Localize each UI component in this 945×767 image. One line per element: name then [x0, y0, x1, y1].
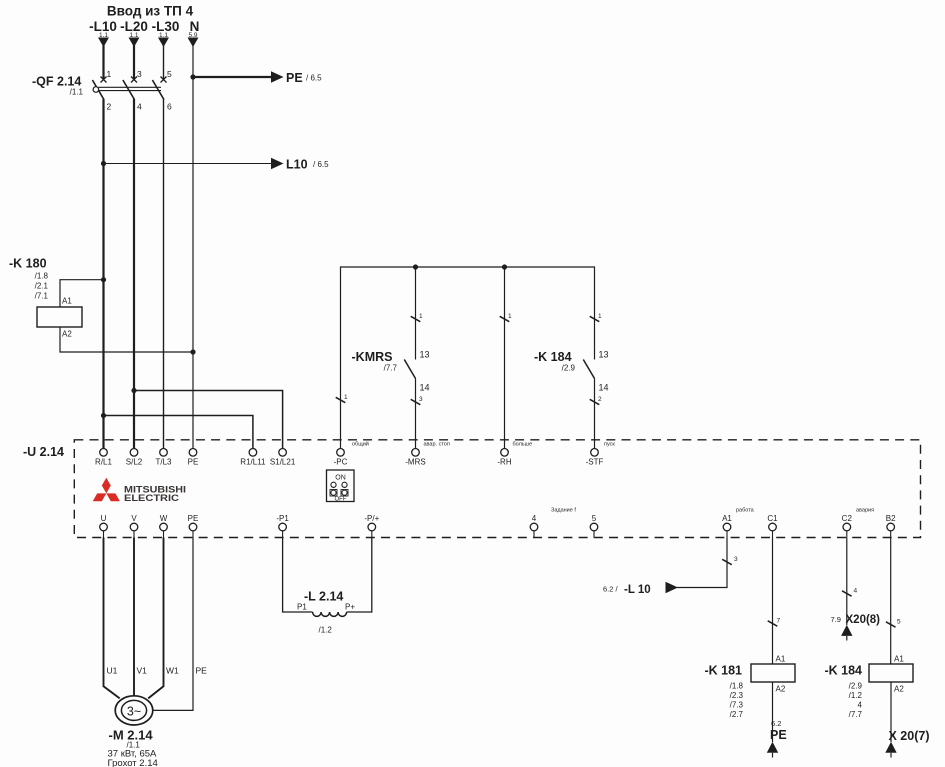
- svg-text:R/L1: R/L1: [95, 458, 112, 467]
- svg-text:3: 3: [419, 396, 423, 403]
- svg-text:работа: работа: [736, 508, 755, 514]
- svg-text:13: 13: [420, 350, 430, 360]
- wire MRS column upper: [415, 267, 417, 360]
- wire V to motor: [133, 538, 135, 697]
- svg-text:общий: общий: [352, 441, 369, 448]
- terminal mark 5 on B2 wire: [886, 622, 896, 627]
- terminal mark 1 on MRS wire: [411, 316, 421, 321]
- logo Mitsubishi lower-left diamond: [93, 493, 107, 501]
- svg-text:PE: PE: [286, 71, 303, 85]
- svg-text:1: 1: [107, 69, 112, 79]
- svg-text:1: 1: [419, 313, 423, 320]
- wire W to motor: [148, 538, 163, 699]
- svg-text:X20(8): X20(8): [846, 614, 881, 626]
- svg-text:ELECTRIC: ELECTRIC: [124, 493, 179, 504]
- wire L10 branch: [104, 163, 273, 165]
- wire STF column lower: [594, 379, 596, 449]
- wire R/L1 to R1/L11: [104, 416, 253, 449]
- svg-text:/ 6.5: / 6.5: [306, 74, 322, 83]
- svg-text:7.9: 7.9: [831, 615, 841, 624]
- breaker linkage: [99, 86, 162, 88]
- feed arrow L20: [129, 38, 140, 48]
- wire C2 column: [846, 538, 848, 626]
- svg-text:X 20(7): X 20(7): [889, 729, 930, 743]
- svg-text:2: 2: [598, 396, 602, 403]
- logo Mitsubishi lower-right diamond: [106, 493, 120, 501]
- svg-text:пуск: пуск: [604, 442, 615, 448]
- wire L30 upper: [163, 45, 165, 79]
- terminal mark 3 on MRS wire: [411, 399, 421, 404]
- svg-text:C2: C2: [842, 514, 853, 523]
- svg-text:/1.8: /1.8: [730, 682, 744, 691]
- svg-text:/7.1: /7.1: [35, 292, 49, 301]
- relay coil K180: [37, 307, 82, 327]
- svg-text:A1: A1: [62, 297, 72, 306]
- svg-text:-PC: -PC: [334, 458, 348, 467]
- wire S/L2 to S1/L21: [134, 391, 283, 449]
- svg-text:PE: PE: [188, 458, 199, 467]
- wire MRS column lower: [415, 379, 417, 449]
- svg-text:/ 6.5: / 6.5: [313, 160, 329, 169]
- svg-text:3: 3: [734, 556, 738, 563]
- wire A1 column: [677, 538, 727, 588]
- terminal R1/L11: [249, 449, 257, 457]
- svg-text:B2: B2: [886, 514, 896, 523]
- svg-text:A1: A1: [722, 514, 732, 523]
- breaker pole 3 lever: [152, 80, 164, 100]
- terminal mark 1 on PC wire: [336, 397, 346, 402]
- svg-text:P1: P1: [297, 603, 307, 612]
- svg-text:A1: A1: [776, 655, 786, 664]
- feed arrow L10: [98, 38, 109, 48]
- svg-text:4: 4: [858, 701, 863, 710]
- wire RH column: [504, 267, 506, 449]
- svg-text:U1: U1: [107, 666, 118, 676]
- svg-text:/1.1: /1.1: [70, 88, 84, 97]
- svg-text:1: 1: [598, 313, 602, 320]
- svg-text:-K 184: -K 184: [534, 350, 572, 364]
- motor M2.14 inner circle: [121, 700, 146, 720]
- wire choke to -P/+: [347, 538, 372, 613]
- svg-text:T/L3: T/L3: [155, 458, 172, 467]
- breaker mechanism circle: [93, 87, 99, 93]
- svg-text:L10: L10: [286, 158, 308, 172]
- node K180-N junction: [190, 349, 195, 354]
- terminal mark 7 on C1 wire: [768, 621, 778, 626]
- svg-text:-STF: -STF: [586, 458, 604, 467]
- svg-text:U: U: [101, 514, 107, 523]
- breaker pole 2 lever: [123, 80, 134, 100]
- svg-text:5: 5: [897, 619, 901, 626]
- terminal S1/L21: [279, 449, 287, 457]
- inverter box U2.14 dashed border: [74, 440, 920, 538]
- svg-text:/2.1: /2.1: [35, 282, 49, 291]
- contact KMRS lever: [404, 360, 415, 379]
- svg-text:Задание f: Задание f: [551, 508, 576, 514]
- wire PE to motor: [153, 538, 193, 711]
- svg-text:/1.2: /1.2: [849, 691, 863, 700]
- motor M2.14 outer circle: [115, 696, 153, 725]
- breaker pole 1 lever: [92, 80, 104, 100]
- svg-text:-L 10: -L 10: [624, 584, 651, 596]
- svg-text:авария: авария: [856, 508, 874, 514]
- svg-text:6.2 /: 6.2 /: [603, 585, 619, 594]
- terminal PE top: [189, 449, 197, 457]
- wire L10 upper: [102, 45, 104, 79]
- svg-text:Ввод из ТП 4: Ввод из ТП 4: [107, 4, 194, 19]
- arrow from -L 10: [666, 582, 679, 593]
- terminal mark 2 on STF wire: [590, 399, 600, 404]
- terminal -PC: [337, 449, 345, 457]
- wire B2 column: [890, 538, 892, 665]
- wire PE branch: [193, 76, 272, 78]
- wire L20 lower: [133, 99, 135, 449]
- svg-text:C1: C1: [767, 514, 778, 523]
- svg-text:6: 6: [167, 102, 172, 112]
- svg-text:/2.9: /2.9: [562, 364, 576, 373]
- svg-text:/2.9: /2.9: [849, 682, 863, 691]
- svg-text:-KMRS: -KMRS: [352, 350, 393, 364]
- svg-text:-P1: -P1: [276, 514, 289, 523]
- wire K180 A2 to N: [60, 327, 193, 352]
- svg-text:/7.3: /7.3: [730, 701, 744, 710]
- arrow X20(8) connector: [841, 625, 852, 636]
- terminal -STF: [591, 449, 599, 457]
- terminal mark 3 on A1 wire: [722, 559, 732, 564]
- svg-text:-P/+: -P/+: [364, 514, 379, 523]
- node bus-RH junction: [502, 264, 507, 269]
- svg-text:-QF 2.14: -QF 2.14: [32, 75, 81, 89]
- terminal mark 4 on C2 wire: [842, 591, 852, 596]
- svg-text:авар. стоп: авар. стоп: [424, 442, 450, 448]
- svg-text:-K 184: -K 184: [824, 664, 862, 678]
- contact K184 lever: [583, 360, 594, 379]
- svg-text:-L 2.14: -L 2.14: [304, 590, 343, 604]
- svg-text:A1: A1: [894, 655, 904, 664]
- wire C1 column: [772, 538, 774, 665]
- svg-text:4: 4: [137, 102, 142, 112]
- svg-text:/2.7: /2.7: [730, 710, 744, 719]
- svg-text:7: 7: [777, 618, 781, 625]
- control bus wire: [341, 267, 595, 449]
- svg-text:S1/L21: S1/L21: [270, 458, 296, 467]
- wire -P1 to choke: [283, 538, 313, 613]
- svg-text:/7.7: /7.7: [384, 364, 398, 373]
- node N-PE junction: [190, 74, 195, 79]
- svg-text:14: 14: [420, 383, 430, 393]
- node L10 branch junction: [101, 161, 106, 166]
- svg-text:-K 181: -K 181: [704, 664, 742, 678]
- svg-text:/1.8: /1.8: [35, 272, 49, 281]
- svg-text:OFF: OFF: [335, 497, 347, 503]
- wire K181 A2 down: [772, 682, 774, 742]
- svg-text:Грохот 2.14: Грохот 2.14: [108, 758, 158, 767]
- svg-text:14: 14: [599, 383, 609, 393]
- feed arrow N: [188, 38, 199, 48]
- svg-text:R1/L11: R1/L11: [240, 458, 266, 467]
- svg-text:PE: PE: [196, 666, 208, 676]
- svg-text:W1: W1: [166, 666, 179, 676]
- node K180-L10 junction: [101, 277, 106, 282]
- svg-text:1: 1: [344, 394, 348, 401]
- wire K184 A2 down: [890, 682, 892, 742]
- breaker pole 1 contact mark: [101, 77, 107, 83]
- svg-text:PE: PE: [188, 514, 199, 523]
- arrow X20(7) down connector: [885, 742, 896, 753]
- terminal S/L2: [130, 449, 138, 457]
- terminal -MRS: [412, 449, 420, 457]
- dip switch ON/OFF: [327, 470, 355, 502]
- wire L10 lower: [102, 99, 104, 449]
- svg-text:S/L2: S/L2: [126, 458, 143, 467]
- arrow PE down connector: [767, 742, 778, 753]
- svg-text:PE: PE: [770, 728, 787, 742]
- arrow PE off-page: [271, 71, 284, 82]
- svg-text:/1.2: /1.2: [319, 626, 333, 635]
- svg-text:6.2: 6.2: [771, 719, 781, 728]
- terminal R/L1: [100, 449, 108, 457]
- node R/L1 branch junction: [101, 413, 106, 418]
- svg-text:4: 4: [532, 514, 537, 523]
- logo Mitsubishi top diamond: [102, 478, 111, 494]
- breaker pole 3 contact mark: [161, 77, 167, 83]
- svg-text:-MRS: -MRS: [405, 458, 425, 467]
- svg-text:P+: P+: [345, 603, 355, 612]
- svg-text:A2: A2: [894, 685, 904, 694]
- svg-text:-RH: -RH: [497, 458, 511, 467]
- wire K180 A1 to L10: [60, 280, 104, 307]
- svg-text:V1: V1: [137, 666, 148, 676]
- wire L30 lower: [163, 99, 165, 449]
- node bus-MRS junction: [413, 264, 418, 269]
- svg-text:5: 5: [167, 69, 172, 79]
- svg-text:3~: 3~: [127, 705, 141, 719]
- node S/L2 branch junction: [131, 388, 136, 393]
- terminal -RH: [501, 449, 509, 457]
- wire L20 upper: [133, 45, 135, 79]
- relay coil K184: [869, 664, 913, 682]
- svg-text:13: 13: [599, 350, 609, 360]
- svg-text:A2: A2: [776, 685, 786, 694]
- svg-text:2: 2: [107, 102, 112, 112]
- inductor L2.14 winding: [313, 612, 347, 616]
- svg-text:ON: ON: [335, 475, 346, 482]
- svg-text:W: W: [160, 514, 168, 523]
- breaker pole 2 contact mark: [131, 77, 137, 83]
- svg-text:A2: A2: [62, 330, 72, 339]
- terminal T/L3: [160, 449, 168, 457]
- feed arrow L30: [158, 38, 169, 48]
- svg-text:-U 2.14: -U 2.14: [23, 445, 64, 459]
- svg-text:V: V: [131, 514, 137, 523]
- svg-text:/7.7: /7.7: [849, 710, 863, 719]
- relay coil K181: [751, 664, 795, 682]
- wire N vertical: [192, 45, 194, 449]
- arrow L10 off-page: [271, 158, 284, 169]
- wire U to motor: [104, 538, 120, 699]
- svg-text:/2.3: /2.3: [730, 691, 744, 700]
- terminal mark 1 on STF wire: [590, 316, 600, 321]
- svg-text:больше: больше: [513, 442, 533, 448]
- svg-text:5: 5: [592, 514, 597, 523]
- svg-text:3: 3: [137, 69, 142, 79]
- terminal mark 1 on RH wire: [500, 316, 510, 321]
- svg-text:1: 1: [508, 313, 512, 320]
- svg-text:4: 4: [854, 588, 858, 595]
- svg-text:-K 180: -K 180: [9, 257, 47, 271]
